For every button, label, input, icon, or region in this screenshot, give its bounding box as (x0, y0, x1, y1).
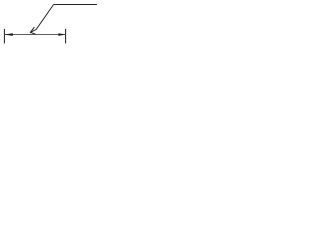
dimension arrowhead right (58, 33, 65, 36)
leader slant line (30, 5, 53, 33)
leader open arrowhead (30, 27, 35, 34)
extension tick left (3, 29, 5, 44)
dimension arrowhead left (4, 33, 12, 36)
extension tick right (65, 29, 67, 44)
dimension line (4, 34, 65, 36)
leader shoulder line (54, 4, 97, 6)
